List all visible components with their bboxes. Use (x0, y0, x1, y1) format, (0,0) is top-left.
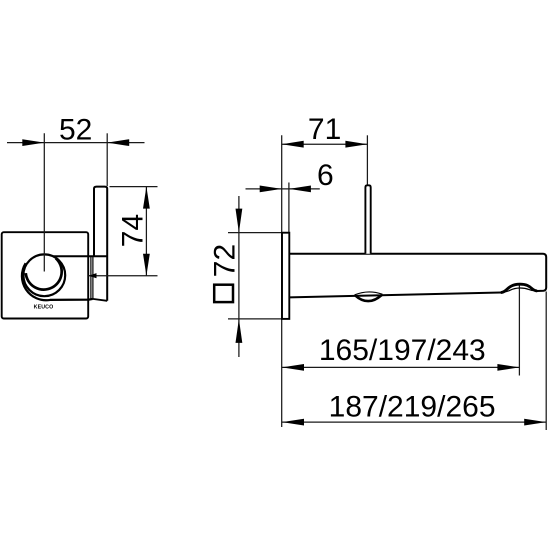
svg-text:71: 71 (308, 113, 341, 146)
svg-text:187/219/265: 187/219/265 (329, 391, 496, 424)
svg-text:74: 74 (117, 214, 150, 247)
svg-text:165/197/243: 165/197/243 (319, 334, 486, 367)
svg-text:72: 72 (208, 244, 241, 277)
svg-text:KEUCO: KEUCO (34, 304, 54, 310)
svg-text:52: 52 (59, 114, 92, 147)
svg-text:6: 6 (317, 159, 334, 192)
